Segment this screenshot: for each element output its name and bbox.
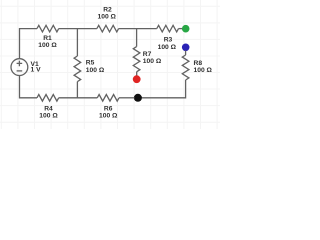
svg-text:R2: R2 <box>103 6 112 13</box>
label R5 100 Ohm <box>86 60 105 74</box>
svg-text:R8: R8 <box>194 60 203 67</box>
resistor R7 <box>133 47 140 72</box>
svg-text:100 Ω: 100 Ω <box>158 44 177 51</box>
voltage source V1 <box>11 59 28 76</box>
wire V1 top to R1 left <box>20 29 38 59</box>
svg-text:R5: R5 <box>86 60 95 67</box>
resistor R3 <box>157 25 179 32</box>
node green terminal <box>182 25 190 33</box>
svg-text:100 Ω: 100 Ω <box>38 42 57 49</box>
label R6 100 Ohm <box>99 106 118 120</box>
resistor R2 <box>97 25 119 32</box>
resistor R4 <box>37 95 59 102</box>
wire R5 bottom to bottom wire <box>76 82 78 98</box>
label R8 100 Ohm <box>194 60 213 74</box>
wire top junction to R5 top <box>76 29 78 56</box>
svg-text:100 Ω: 100 Ω <box>86 67 105 74</box>
label R2 100 Ohm <box>98 6 117 20</box>
wire R2 to R3 (junction to R7) <box>119 28 157 30</box>
wire blue terminal to R8 top <box>185 51 187 56</box>
svg-text:R1: R1 <box>43 35 52 42</box>
svg-text:1 V: 1 V <box>31 67 42 74</box>
resistor R6 <box>97 95 119 102</box>
wire R7 bottom to red terminal <box>136 72 138 76</box>
wire R8 bottom to black node (bottom right corner) <box>142 80 186 98</box>
node black junction <box>134 94 142 102</box>
wire black node to R6 right <box>119 97 135 99</box>
svg-text:100 Ω: 100 Ω <box>194 67 213 74</box>
svg-text:100 Ω: 100 Ω <box>39 113 58 120</box>
svg-text:R3: R3 <box>164 37 173 44</box>
svg-text:100 Ω: 100 Ω <box>98 14 117 21</box>
wire R4 to V1 bottom <box>20 76 38 98</box>
node blue terminal <box>182 44 190 52</box>
wire top junction to R7 top <box>136 29 138 47</box>
label R4 100 Ohm <box>39 106 58 120</box>
svg-text:R6: R6 <box>104 106 113 113</box>
resistor R1 <box>37 25 59 32</box>
svg-text:100 Ω: 100 Ω <box>99 113 118 120</box>
svg-text:R4: R4 <box>44 106 53 113</box>
label R3 100 Ohm <box>158 37 177 51</box>
resistor R5 <box>74 56 81 82</box>
background grid <box>0 0 220 129</box>
wire R6 to R4 (junction to R5 bottom) <box>59 97 98 99</box>
label V1 1 V <box>31 61 42 74</box>
wire R1 to R2 (junction to R5) <box>59 28 97 30</box>
resistor R8 <box>182 55 189 80</box>
node red terminal <box>133 75 141 83</box>
label R1 100 Ohm <box>38 35 57 49</box>
svg-text:100 Ω: 100 Ω <box>143 58 162 65</box>
label R7 100 Ohm <box>143 51 162 65</box>
wire R3 to green terminal <box>179 28 184 30</box>
